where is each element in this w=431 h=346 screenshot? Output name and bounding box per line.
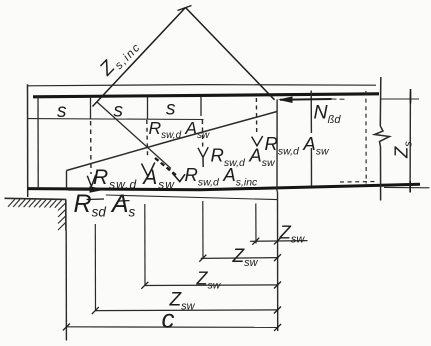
apex right line (186, 8, 275, 100)
inner right edge (dashed) (365, 91, 367, 184)
apex tick (178, 6, 192, 11)
support corner vertical (65, 199, 67, 230)
support ground line (5, 198, 66, 199)
stirrup S1 arrow (87, 175, 95, 186)
diagonal crack line (67, 112, 278, 171)
R_sd A_s force arrow (68, 188, 92, 191)
stirrup S1 tick (90, 97, 92, 120)
Z_s dimension top extension (381, 98, 419, 100)
dimension line c (66, 326, 278, 329)
svg-text:c: c (162, 304, 175, 334)
stirrup S4 arrow (252, 136, 263, 146)
stirrup S2 arrow (142, 163, 155, 177)
N_ed force arrow (280, 98, 332, 101)
support ground hatching (8, 199, 62, 208)
crack top jog vertical (276, 100, 278, 192)
beam outer outline top edge (28, 85, 377, 86)
inclined bar line (97, 102, 171, 169)
crack start vertical (66, 171, 68, 189)
break line bottom (380, 147, 382, 201)
stirrup spacing line under s labels (28, 118, 204, 121)
N_ed arrowhead (278, 96, 293, 103)
support corner hatching (58, 203, 66, 230)
inner bottom edge right (dashed) (340, 181, 377, 184)
dimension line Z_sw 2 (201, 257, 279, 260)
Z_s dimension bottom extension (384, 186, 430, 188)
beam outer outline left edge (27, 84, 29, 197)
svg-text:s: s (57, 101, 67, 122)
dimension extension x=277 (right common) (277, 192, 279, 332)
inclined bar arrowhead (173, 173, 186, 181)
dimension extension x=145 (144, 204, 146, 286)
stirrup S2 dashed line (146, 120, 149, 158)
stirrup S3 dashed line (201, 120, 203, 147)
inclined bar force arrow (dashed) (155, 158, 177, 176)
dimension slash ticks (63, 237, 281, 331)
break line (right) top (379, 77, 382, 126)
dimension line Z_sw 4 (95, 309, 278, 312)
stirrup S4 dashed line (255, 98, 257, 134)
dimension line Z_sw 3 (145, 284, 279, 287)
label Z_s,inc (rotated) (95, 34, 143, 83)
stirrup S3 tick (200, 97, 202, 116)
dimension extension x=66 (left, under support) (65, 231, 67, 341)
beam bottom chord (thick line) (28, 184, 421, 190)
Z_s dimension line (409, 93, 411, 189)
label Z_s (rotated) (391, 141, 415, 159)
vertical line under N_ed (310, 91, 312, 187)
apex left line (Z_s,inc) (93, 8, 186, 107)
left end tick (full height) (37, 96, 39, 188)
R_sd arrowhead (90, 186, 106, 193)
break line zigzag (375, 126, 390, 147)
tension chord extension line (106, 195, 277, 200)
overbar on sd (87, 199, 130, 201)
dimension line Z_sw 1 (250, 240, 308, 243)
dimension extension x=203 (202, 201, 204, 259)
stirrup S2 tick (147, 97, 149, 120)
svg-text:s: s (166, 99, 176, 120)
beam top chord (thick line) (33, 94, 379, 97)
dimension extension x=256 (255, 204, 257, 244)
dimension extension x=95 (94, 224, 96, 311)
stirrup S3 arrow (198, 147, 208, 167)
Z_s dimension end ticks (409, 89, 411, 193)
stirrup S1 dashed line (90, 121, 92, 174)
